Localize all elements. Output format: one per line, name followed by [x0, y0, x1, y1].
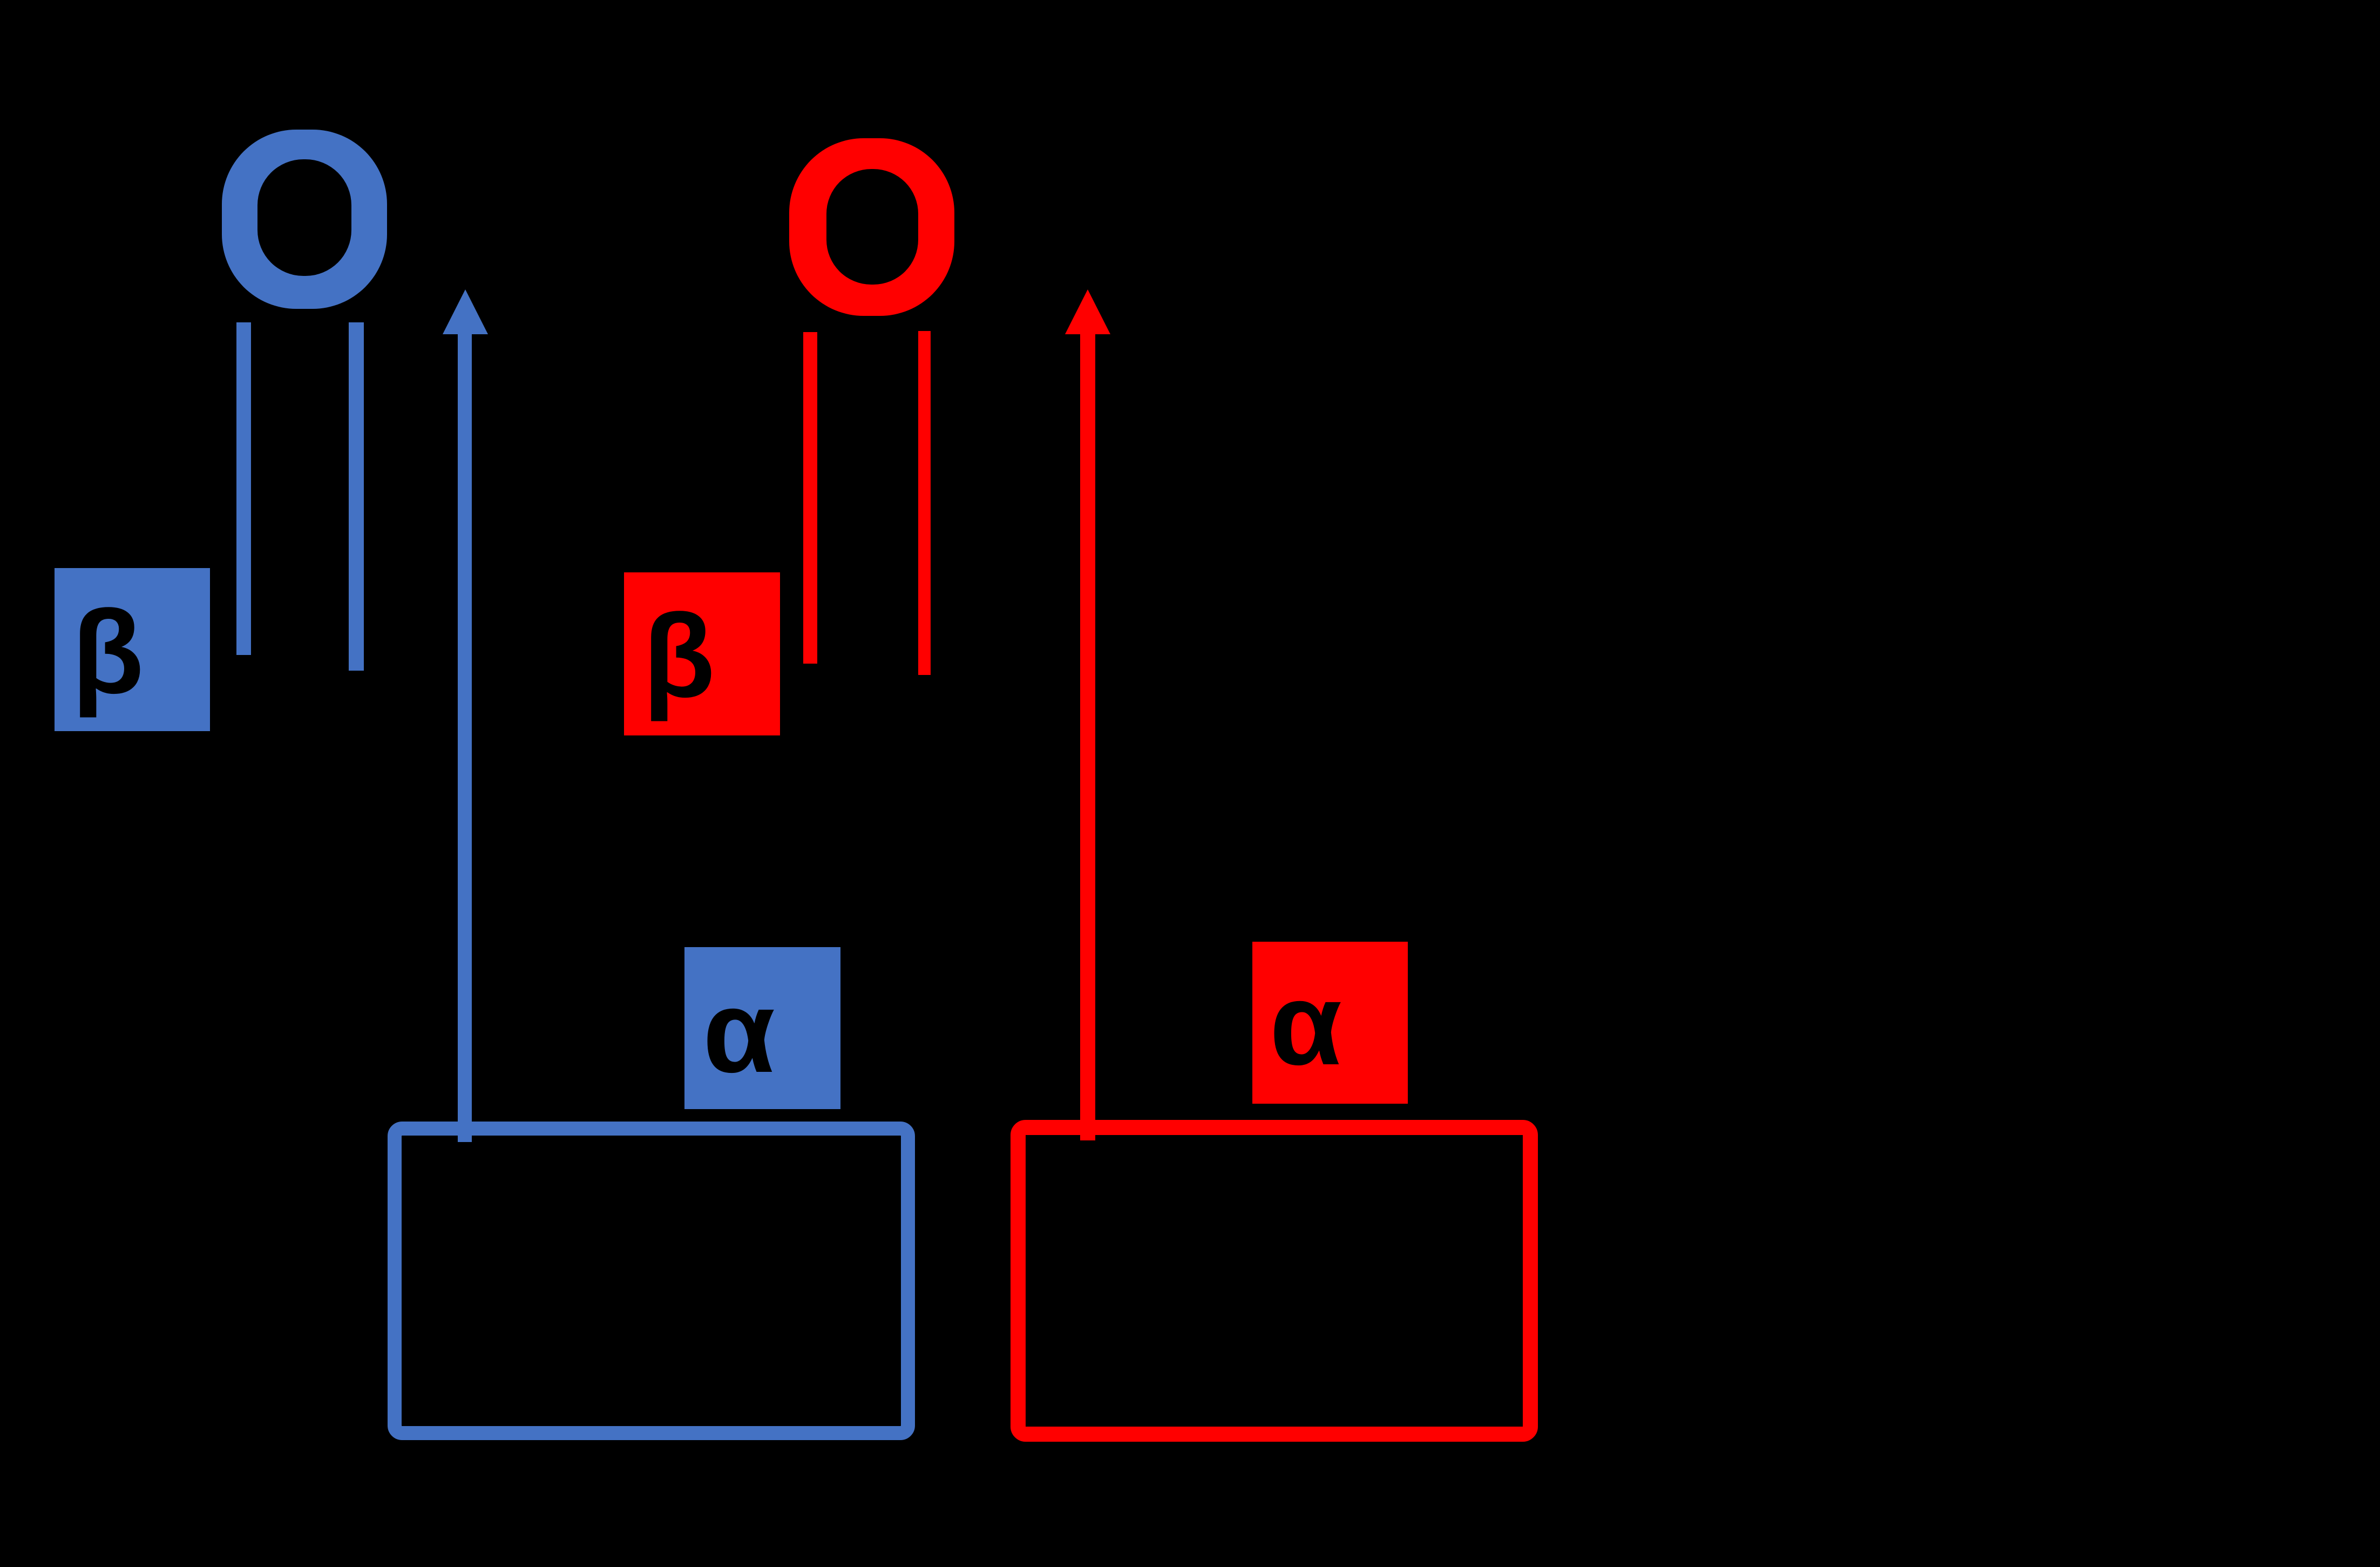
blue energy arrow head: [443, 289, 488, 334]
blue pi* orbital line 1: [236, 322, 251, 655]
blue energy arrow shaft: [458, 329, 472, 1142]
blue ground state box: [395, 1129, 908, 1433]
red energy arrow shaft: [1080, 329, 1095, 1140]
blue letter O (singlet oxygen label): [222, 130, 387, 309]
blue pi* orbital line 2: [349, 322, 364, 671]
blue alpha spin square: [684, 947, 840, 1109]
svg-text:β: β: [72, 586, 144, 718]
red pi* orbital line 2: [918, 331, 931, 675]
red pi* orbital line 1: [803, 332, 817, 664]
red letter O (triplet oxygen label): [789, 138, 954, 316]
red alpha spin square: [1252, 942, 1408, 1104]
svg-text:β: β: [643, 590, 715, 722]
red energy arrow head: [1065, 289, 1110, 334]
red ground state box: [1018, 1127, 1530, 1434]
red beta spin square: [624, 572, 780, 735]
blue beta spin square: [55, 568, 210, 731]
svg-text:α: α: [703, 966, 775, 1097]
svg-text:α: α: [1270, 958, 1342, 1090]
